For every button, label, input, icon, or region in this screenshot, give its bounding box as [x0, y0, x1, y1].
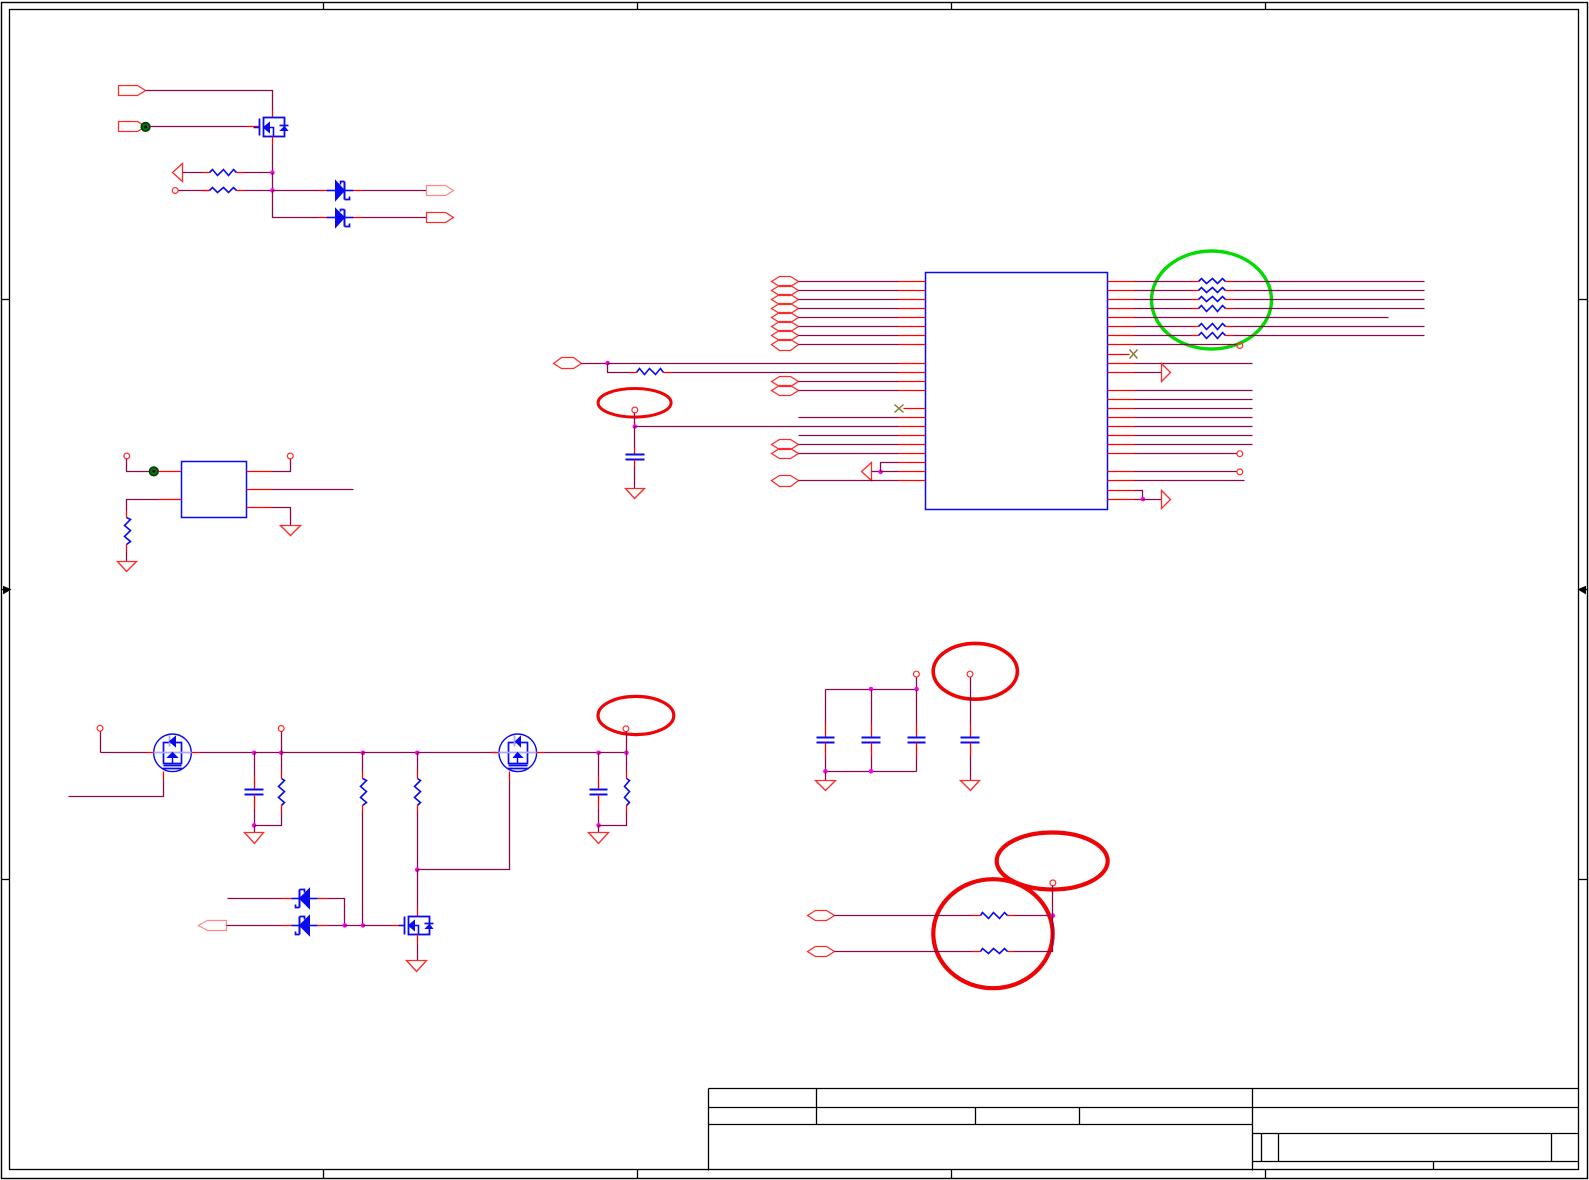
no-connect circle U2 pin4 net [287, 453, 293, 459]
off-page port PL11 [772, 386, 799, 396]
no-connect X mark right [1130, 350, 1138, 359]
pin U2.1 stub [159, 471, 182, 473]
wire R6 to right [1234, 290, 1425, 292]
wire PL6 to U1 [799, 326, 899, 328]
pin U1 right row 23 stub [1108, 490, 1135, 492]
pin U1 right row 4 stub [1108, 308, 1135, 310]
ground G7 [816, 781, 836, 791]
resistor R4 [637, 369, 664, 375]
pin U1 right row 16 stub [1108, 426, 1135, 428]
pin U2.3 stub [247, 507, 272, 509]
pin R2 right stub [237, 190, 245, 192]
pin C2 top stub [254, 776, 256, 790]
pin Q4 gate stub [392, 925, 405, 927]
pin D1 anode stub [319, 190, 327, 192]
pin U1 right row 22 stub [1108, 480, 1135, 482]
wire R16 to node W [1015, 916, 1053, 952]
wire R2 to node C [245, 190, 273, 192]
border top tick 3 [951, 3, 953, 10]
wire U1 to R5 [1135, 281, 1192, 283]
pin R14 top stub [626, 772, 628, 779]
pin Q1 drain stub [272, 111, 274, 118]
highlight ellipse annotation green [1152, 251, 1272, 349]
off-page port PL15 [772, 476, 799, 487]
off-page port PL2 [772, 286, 799, 296]
pin C3 bottom stub [598, 795, 600, 810]
wire cap bank top bus [826, 689, 917, 691]
wire U2.3 to ground [272, 508, 291, 526]
port P6 (output flag) [427, 213, 454, 223]
wire U1 to R7 [1135, 299, 1192, 301]
pin R10 right stub [1226, 335, 1234, 337]
wire nc to C7 [970, 678, 972, 724]
pin D4 stub right [318, 925, 328, 927]
wire D3 to node P1 [328, 899, 345, 926]
wire cap bank bottom bus [826, 771, 917, 773]
pin R3 top stub [126, 511, 128, 518]
junction node N [252, 823, 257, 828]
pin U1 left row 7 stub [899, 335, 926, 337]
pin R2 left stub [203, 190, 210, 192]
pin R16 right stub [1008, 951, 1015, 953]
border right tick 2 [1579, 879, 1588, 881]
wire D3 anode stub start [228, 898, 282, 900]
pin R9 right stub [1226, 326, 1234, 328]
wire rail segment 1 [101, 752, 147, 754]
wire rail segment 7 [545, 752, 599, 754]
transistor Q1 (P-MOSFET) [254, 118, 289, 137]
border bottom tick 2 [637, 1170, 639, 1179]
wire Q1 source to node B [272, 145, 274, 173]
no-connect circle cap bank [914, 671, 920, 677]
pin C6 bottom stub [916, 743, 918, 757]
pin C1 top stub [634, 448, 636, 455]
port P2 (input flag) [119, 122, 146, 132]
node green dot A [141, 123, 150, 132]
pin U1 right row 14 stub [1108, 408, 1135, 410]
pin U1 left row 6 stub [899, 326, 926, 328]
pin D2 anode stub [319, 217, 327, 219]
wire node E to U1 [635, 426, 899, 428]
pin U1 right row 17 stub [1108, 435, 1135, 437]
junction rail node L [596, 751, 601, 756]
wire nc to top bus [916, 678, 918, 690]
wire U2.2 to R3 [127, 500, 159, 511]
border top tick 2 [637, 3, 639, 10]
pin U1 left row 12 stub [899, 390, 926, 392]
pin R3 bottom stub [126, 545, 128, 552]
wire PL9 to node D [582, 363, 608, 365]
pin R5 right stub [1226, 281, 1234, 283]
junction node F [878, 470, 883, 475]
wire node N to ground [254, 826, 256, 833]
pin C7 top stub [970, 724, 972, 738]
pin C6 top stub [916, 724, 918, 738]
pin Q3 right stub [537, 752, 545, 754]
pin U1 right row 8 stub [1108, 344, 1135, 346]
wire C3 to node Q [598, 810, 600, 826]
wire top bus to C4 [825, 690, 827, 724]
pin U1 left row 1 stub [899, 281, 926, 283]
capacitor C2 [245, 790, 264, 795]
pin Q1 source stub [272, 137, 274, 145]
wire node G to port PR2 [1143, 499, 1162, 501]
pin U1 right row 6 stub [1108, 326, 1135, 328]
off-page port PL9 [554, 358, 582, 369]
wire U1 right row 16 [1135, 426, 1253, 428]
wire PL1 to U1 [799, 281, 899, 283]
pin R15 left stub [973, 915, 981, 917]
highlight ellipse annotation 3 [933, 643, 1017, 699]
wire U2.4 to nc circle [272, 459, 291, 472]
wire U1 left row 17 [799, 435, 899, 437]
off-page port PL1 [772, 277, 799, 287]
junction node O [415, 867, 420, 872]
pin U1 right row 3 stub [1108, 299, 1135, 301]
wire nc to node E [634, 413, 636, 427]
wire node C down to D2 row [273, 191, 319, 218]
highlight ellipse annotation 5 [997, 833, 1108, 890]
wire Q4 to ground [417, 944, 419, 961]
pin U1 left row 21 stub [899, 471, 926, 473]
off-page port PL6 [772, 322, 799, 332]
port PR2 (output arrow) [1162, 491, 1171, 509]
IC U2 body [182, 462, 247, 518]
no-connect circle rail mid [278, 726, 284, 732]
pin R11 top stub [281, 772, 283, 779]
pin R15 right stub [1008, 915, 1015, 917]
no-connect circle right row 21 [1237, 469, 1243, 475]
wire R3 to ground [126, 552, 128, 562]
port P3 (input arrow) [173, 164, 183, 182]
pin C3 top stub [598, 776, 600, 790]
junction rail node K [415, 751, 420, 756]
pin R6 left stub [1192, 290, 1199, 292]
wire node B to node C [272, 173, 274, 191]
wire C2 to node N [254, 810, 256, 826]
no-connect circle right row 8 [1237, 343, 1243, 349]
pin U2.4 stub [247, 471, 272, 473]
port P7 (output flag left) [199, 921, 227, 931]
resistor R14 [625, 779, 630, 806]
off-page port PL4 [772, 304, 799, 314]
wire PL10 to U1 [799, 381, 899, 383]
transistor Q4 (P-MOSFET) [399, 917, 434, 935]
IC U1 body [926, 273, 1108, 510]
off-page port PB2 [808, 947, 835, 957]
wire R10 to right [1234, 335, 1425, 337]
wire U2.5 open stub [272, 489, 354, 491]
wire PL5 to U1 [799, 317, 899, 319]
pin U1 right row 10 stub [1108, 363, 1135, 365]
pin U1 right row 18 stub [1108, 444, 1135, 446]
pin R13 bottom stub [417, 806, 419, 813]
border left tick 2 [2, 879, 10, 881]
wire P3 to R1 [183, 172, 203, 174]
wire PL7 to U1 [799, 335, 899, 337]
pin D1 cathode stub [354, 190, 363, 192]
title block [709, 1089, 1579, 1171]
junction node C [270, 188, 275, 193]
wire node P1 to node P [345, 925, 363, 927]
wire node D to U1 [608, 363, 899, 365]
off-page port PL8 [772, 340, 799, 351]
wire U1 right row 12 [1135, 390, 1253, 392]
wire C7 to ground [970, 757, 972, 781]
pin D4 stub left [282, 925, 292, 927]
border left tick 1 [2, 299, 10, 301]
wire U1 to port PR1 [1135, 372, 1162, 374]
pin R16 left stub [973, 951, 981, 953]
wire Q2 gate [69, 780, 164, 797]
diode D1 (zener) [327, 181, 354, 201]
pin U1 left row 9 stub [899, 363, 926, 365]
pin R14 bottom stub [626, 806, 628, 813]
off-page port PL10 [772, 377, 799, 387]
wire P2 to Q1 gate [150, 126, 247, 128]
off-page port PB1 [808, 911, 835, 921]
wire row 23 to node G [1135, 491, 1143, 500]
pin U1 left row 22 stub [899, 480, 926, 482]
no-connect circle rail left [97, 725, 103, 731]
pin Q2 gate stub [163, 772, 165, 780]
pin Q4 bottom stub [417, 935, 419, 944]
junction rail node H [252, 751, 257, 756]
wire node K to R13 [417, 753, 419, 772]
ground G2 [281, 526, 301, 536]
pin U1 left row 5 stub [899, 317, 926, 319]
no-connect circle P4 [172, 188, 178, 194]
junction node E [633, 424, 638, 429]
pin U1 left row 8 stub [899, 344, 926, 346]
wire PL8 to U1 [799, 344, 899, 346]
wire U1 to R10 [1135, 335, 1192, 337]
capacitor C7 [961, 738, 980, 743]
wire U1 right row 13 [1135, 399, 1253, 401]
wire R15 to node W [1015, 915, 1053, 917]
wire node F up to row 20 [881, 463, 899, 472]
wire U1 right row 21 [1135, 471, 1237, 473]
wire PL15 to U1 [799, 480, 899, 482]
wire P4 to R2 [179, 190, 210, 192]
pin R6 right stub [1226, 290, 1234, 292]
wire rail segment 2 [200, 752, 255, 754]
border top tick 1 [323, 3, 325, 10]
pin R1 right stub [237, 172, 245, 174]
wire rail segment 4 [282, 752, 363, 754]
pin R9 left stub [1192, 326, 1199, 328]
pin U1 right row 12 stub [1108, 390, 1135, 392]
pin U2.5 stub [247, 489, 272, 491]
wire U1 right row 17 [1135, 435, 1253, 437]
port P1 (input flag) [119, 86, 146, 96]
diode D4 (zener) [292, 916, 318, 936]
wire PL12 to U1 [799, 444, 899, 446]
pin U1 left row 11 stub [899, 381, 926, 383]
pin R7 right stub [1226, 299, 1234, 301]
wire R1 to node B [245, 172, 273, 174]
pin C7 bottom stub [970, 743, 972, 757]
no-connect circle C-branch [632, 407, 638, 413]
pin R5 left stub [1192, 281, 1199, 283]
wire nc to green dot [127, 459, 150, 472]
wire P1 to Q1 drain [146, 91, 273, 111]
pin R8 right stub [1226, 308, 1234, 310]
pin R12 bottom stub [362, 806, 364, 813]
pin U1 left row 17 stub [899, 435, 926, 437]
wire rail segment 6 [418, 752, 500, 754]
wire node C to D1 [273, 190, 319, 192]
wire top bus to C6 [916, 690, 918, 724]
wire nc to node I [281, 732, 283, 753]
ground G4 [245, 833, 264, 844]
pin U1 left row 2 stub [899, 290, 926, 292]
node green dot B [150, 467, 159, 476]
wire R9 to right [1234, 326, 1425, 328]
wire PL11 to U1 [799, 390, 899, 392]
no-connect circle right row 19 [1237, 451, 1243, 457]
wire nc down to rail [100, 732, 102, 753]
wire node H to C2 [254, 753, 256, 776]
pin Q1 gate stub [247, 126, 260, 128]
wire nc down to node W [1052, 886, 1054, 916]
wire rail segment 8 [599, 752, 627, 754]
ground G6 [407, 961, 427, 972]
junction node P [361, 923, 366, 928]
no-connect X mark left [895, 405, 904, 413]
wire R7 to right [1234, 299, 1425, 301]
wire R14 to node Q [599, 813, 627, 826]
pin Q4 top stub [417, 909, 419, 917]
wire node I to R11 [281, 753, 283, 772]
transistor Q2 (P-MOSFET power) [154, 734, 192, 772]
pin C5 top stub [871, 724, 873, 738]
wire D1 to port P5 [363, 190, 427, 192]
wire U1 right row 8 [1135, 344, 1237, 346]
pin R4 right stub [664, 372, 672, 374]
pin U1 right row 21 stub [1108, 471, 1135, 473]
pin U1 right row 5 stub [1108, 317, 1135, 319]
resistor R6 [1199, 288, 1226, 293]
wire U1 right row 10 [1135, 363, 1253, 365]
resistor R11 [279, 779, 285, 806]
wire node O to Q3 source [418, 780, 510, 870]
resistor R16 [981, 949, 1008, 954]
pin R13 top stub [417, 772, 419, 779]
border left center arrow [2, 587, 11, 594]
wire PB1 to R15 [835, 915, 973, 917]
wire node P to Q4 gate [363, 925, 392, 927]
wire U1 right row 19 [1135, 453, 1237, 455]
wire U1 to R8 [1135, 308, 1192, 310]
wire rail segment 3 [255, 752, 282, 754]
junction bottom bus node V [869, 769, 874, 774]
pin C4 bottom stub [825, 743, 827, 757]
pin D2 cathode stub [354, 217, 363, 219]
pin U1 right row 19 stub [1108, 453, 1135, 455]
wire U1 right row 15 [1135, 417, 1253, 419]
wire node E down to C1 [634, 427, 636, 448]
pin U1 right row 13 stub [1108, 399, 1135, 401]
pin R8 left stub [1192, 308, 1199, 310]
pin U1 right row 2 stub [1108, 290, 1135, 292]
junction node W [1051, 913, 1056, 918]
wire nc to node M [626, 732, 628, 753]
wire U1 to R6 [1135, 290, 1192, 292]
capacitor C4 [817, 738, 835, 743]
ground G3 [626, 489, 645, 499]
resistor R5 [1199, 279, 1226, 284]
pin U1 right row 7 stub [1108, 335, 1135, 337]
wire U1 right row 22 [1135, 480, 1245, 482]
pin U2.2 stub [159, 499, 182, 501]
junction bottom bus node U [823, 769, 828, 774]
ground G1 [118, 562, 137, 572]
pin R7 left stub [1192, 299, 1199, 301]
port PR1 (output arrow) [1162, 364, 1171, 382]
off-page port PL7 [772, 331, 799, 341]
wire C5 to bottom bus [871, 757, 873, 772]
wire C4 to bottom bus [825, 757, 827, 772]
capacitor C1 [626, 455, 645, 460]
off-page port PL13 [772, 449, 799, 459]
pin U1 left row 14 stub (no-connect) [904, 408, 926, 410]
wire U1 right row 18 [1135, 444, 1253, 446]
pin C2 bottom stub [254, 795, 256, 810]
wire node F to row 21 [881, 471, 899, 473]
wire R12 down to diode row node P [362, 813, 364, 926]
pin C1 bottom stub [634, 460, 636, 467]
pin C4 top stub [825, 724, 827, 738]
wire PL2 to U1 [799, 290, 899, 292]
wire R4 to U1 [672, 372, 899, 374]
wire R11 to node N [255, 813, 282, 826]
wire R8 to right [1234, 308, 1425, 310]
border bottom tick 1 [323, 1170, 325, 1179]
wire rail segment 5 [363, 752, 418, 754]
pin D3 right stub [282, 898, 292, 900]
pin Q2 left stub [147, 752, 155, 754]
pin U1 left row 3 stub [899, 299, 926, 301]
capacitor C3 [590, 790, 608, 795]
pin R10 left stub [1192, 335, 1199, 337]
junction node P1 [343, 923, 348, 928]
pin U1 left row 20 stub [899, 462, 926, 464]
border right tick 1 [1579, 299, 1588, 301]
pin R1 left stub [203, 172, 210, 174]
resistor R13 [415, 779, 421, 806]
diode D2 (zener) [327, 209, 354, 228]
pin Q3 left stub [492, 752, 500, 754]
junction node B [270, 170, 275, 175]
resistor R9 [1199, 324, 1226, 330]
no-connect circle above node M [623, 726, 629, 732]
wire node Q to ground [598, 826, 600, 833]
wire node L to C3 [598, 753, 600, 776]
junction rail node I [279, 751, 284, 756]
border bottom tick 3 [951, 1170, 953, 1179]
wire PL4 to U1 [799, 308, 899, 310]
wire R5 to right [1234, 281, 1425, 283]
wire D4 to node P1 [328, 925, 345, 927]
pin R11 bottom stub [281, 806, 283, 813]
wire PL14 to node F [872, 471, 881, 473]
wire PB2 to R16 [835, 951, 973, 953]
highlight circle annotation 4 [933, 879, 1052, 988]
border right center arrow [1579, 587, 1588, 594]
wire node J to R12 [362, 753, 364, 772]
wire C1 to ground [634, 467, 636, 489]
